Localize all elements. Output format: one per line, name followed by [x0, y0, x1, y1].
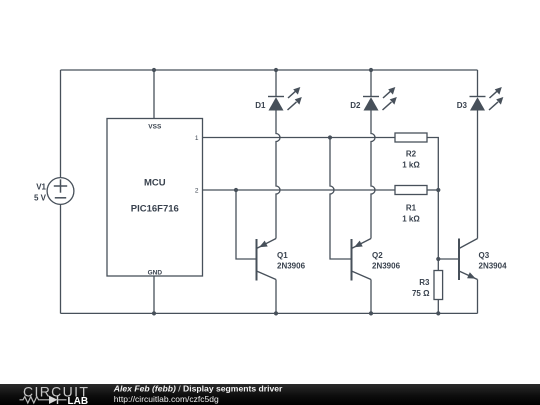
svg-text:PIC16F716: PIC16F716 [131, 204, 179, 215]
LED D3 [470, 87, 504, 111]
voltage source V1 [47, 178, 74, 205]
svg-text:2N3906: 2N3906 [372, 262, 401, 271]
wire rail to D1 [275, 70, 277, 97]
wire D2 to Q2 emitter (hops pin1,pin2) [371, 111, 375, 239]
svg-text:R1: R1 [406, 204, 417, 213]
resistor R2 [395, 133, 427, 142]
svg-text:1: 1 [195, 135, 199, 142]
junction D1 on top rail [274, 68, 278, 72]
wire Q1 collector to bottom rail [275, 280, 277, 314]
junction pin1 to Q2 base [328, 135, 332, 139]
wire pin 1 [203, 137, 396, 139]
wire junction to Q3 base [438, 258, 459, 260]
resistor R3 [434, 271, 443, 300]
svg-text:2N3904: 2N3904 [479, 262, 508, 271]
junction pin2 to Q1 base [234, 188, 238, 192]
svg-text:Alex Feb (febb) / Display segm: Alex Feb (febb) / Display segments drive… [113, 384, 283, 394]
wire V1 to bottom rail [60, 205, 62, 314]
CircuitLab logo [20, 383, 90, 405]
junction R1-R2 node [436, 188, 440, 192]
svg-text:LAB: LAB [68, 396, 89, 405]
wire Q3 emitter to bottom rail [477, 280, 479, 314]
wire D3 to Q3 collector [477, 111, 479, 239]
svg-text:Q3: Q3 [479, 251, 490, 260]
LED D2 [363, 87, 397, 111]
svg-text:D3: D3 [457, 101, 468, 110]
wire bottom rail [61, 312, 478, 314]
svg-text:75 Ω: 75 Ω [412, 289, 430, 298]
svg-text:Q2: Q2 [372, 251, 383, 260]
svg-text:VSS: VSS [148, 124, 162, 131]
svg-text:R2: R2 [406, 150, 417, 159]
svg-text:V1: V1 [36, 183, 46, 192]
wire D1 to Q1 emitter (hops pin1,pin2) [276, 111, 280, 239]
wire rail to D3 [477, 70, 479, 97]
junction D2 on top rail [369, 68, 373, 72]
svg-text:D2: D2 [350, 101, 361, 110]
wire R2 right to node [427, 138, 438, 191]
wire rail to D2 [370, 70, 372, 97]
wire GND to bottom rail [153, 276, 155, 313]
svg-text:Q1: Q1 [277, 251, 288, 260]
junction Q2 on bottom rail [369, 311, 373, 315]
wire pin2 to Q1 base [236, 190, 257, 259]
svg-text:2: 2 [195, 188, 199, 195]
resistor R1 [395, 186, 427, 195]
junction Q3 base node [436, 257, 440, 261]
wire left from top rail to V1 [60, 70, 62, 178]
wire pin1 to Q2 base (hops pin2) [330, 138, 352, 260]
junction R3 on bottom rail [436, 311, 440, 315]
MCU U1 box [107, 119, 203, 277]
transistor Q3 (2N3904 NPN) [459, 239, 478, 281]
wire R1 right to node [427, 189, 438, 191]
wire Q2 collector to bottom rail [370, 280, 372, 314]
wire pin 2 [203, 189, 396, 191]
transistor Q1 (2N3906 PNP) [257, 239, 277, 281]
wire Q3 base junction to R3 [437, 259, 439, 271]
wire R3 to bottom rail [437, 300, 439, 314]
svg-text:5 V: 5 V [34, 194, 47, 203]
svg-text:R3: R3 [419, 278, 430, 287]
junction Q1 on bottom rail [274, 311, 278, 315]
svg-text:1 kΩ: 1 kΩ [402, 215, 420, 224]
LED D1 [268, 87, 302, 111]
transistor Q2 (2N3906 PNP) [352, 239, 372, 281]
wire VSS to top rail [153, 70, 155, 119]
svg-text:MCU: MCU [144, 178, 166, 189]
svg-text:2N3906: 2N3906 [277, 262, 306, 271]
svg-text:http://circuitlab.com/czfc5dg: http://circuitlab.com/czfc5dg [114, 394, 219, 404]
wire node down to Q3 base junction [437, 190, 439, 259]
svg-text:1 kΩ: 1 kΩ [402, 161, 420, 170]
svg-text:GND: GND [148, 270, 163, 277]
svg-text:D1: D1 [255, 101, 266, 110]
junction GND on bottom rail [152, 311, 156, 315]
junction VSS on top rail [152, 68, 156, 72]
wire top rail [61, 69, 478, 71]
